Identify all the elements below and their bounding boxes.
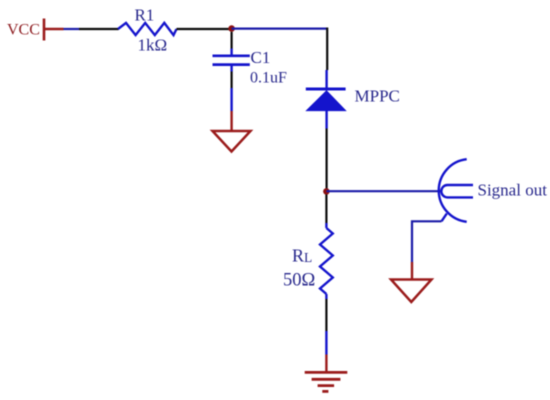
power port VCC lead	[44, 28, 64, 30]
earth ground bar 2	[312, 378, 341, 381]
earth ground lead red	[325, 355, 327, 373]
svg-text:R1: R1	[135, 6, 155, 25]
MPPC bottom pin (blue)	[325, 111, 327, 129]
svg-text:C1: C1	[251, 48, 271, 67]
ground symbol (C1)	[213, 131, 251, 152]
earth ground bar 1	[305, 371, 348, 374]
wire R1 to node A	[177, 28, 232, 30]
wire node A to corner (navy)	[232, 28, 328, 30]
wire MPPC to node B (black)	[326, 129, 328, 189]
capacitor C1 bottom pin (blue)	[230, 65, 232, 72]
ground pin segment (blue)	[230, 88, 232, 111]
ground lead (signal) red	[411, 262, 413, 280]
wire shield to ground (navy)	[412, 221, 442, 262]
svg-text:1kΩ: 1kΩ	[138, 36, 168, 55]
earth ground bar 3	[318, 384, 335, 387]
wire node B to connector (navy)	[326, 190, 441, 192]
svg-text:MPPC: MPPC	[355, 87, 400, 106]
node A junction dot	[228, 25, 235, 32]
RL bottom pin (blue)	[325, 294, 327, 299]
wire RL to earth (black)	[325, 299, 327, 331]
ground symbol (signal)	[391, 280, 432, 303]
resistor R1	[118, 23, 177, 35]
resistor RL	[320, 228, 333, 294]
wire VCC to R1 (black segment)	[79, 28, 119, 30]
wire corner down to MPPC (black)	[326, 28, 328, 71]
node B junction dot	[323, 188, 330, 195]
svg-text:VCC: VCC	[7, 22, 40, 39]
capacitor C1 bottom plate	[213, 63, 250, 66]
RL top pin (blue)	[325, 223, 327, 228]
power port VCC bar	[43, 19, 46, 41]
svg-text:0.1uF: 0.1uF	[250, 70, 287, 87]
earth ground bar 4	[322, 390, 328, 393]
svg-text:Signal out: Signal out	[478, 181, 548, 200]
svg-text:RL: RL	[292, 246, 312, 266]
wire node B down to RL (black)	[325, 195, 327, 224]
svg-text:50Ω: 50Ω	[283, 271, 315, 291]
wire C1 to ground (black)	[231, 72, 233, 89]
wire VCC to R1 (navy segment)	[64, 28, 80, 30]
connector J1 center pin fork	[441, 185, 473, 197]
connector J1 shield tap (blue)	[442, 214, 447, 222]
photodiode MPPC triangle	[307, 91, 346, 111]
wire node A down to C1 (black)	[231, 32, 233, 49]
capacitor C1 top pin (blue)	[230, 49, 232, 56]
earth pin segment (blue)	[325, 331, 327, 355]
ground lead (C1) red	[230, 111, 232, 131]
capacitor C1 top plate	[213, 54, 250, 57]
connector J1 shield arc	[439, 159, 467, 222]
MPPC top pin (blue)	[325, 70, 327, 89]
photodiode MPPC cathode bar	[306, 88, 346, 91]
